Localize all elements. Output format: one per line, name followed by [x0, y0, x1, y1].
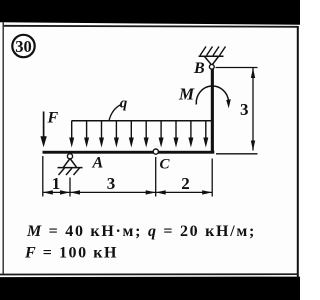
problem number circle 30 [12, 35, 34, 57]
frame bottom line [0, 273, 298, 275]
frame top line [3, 26, 298, 27]
svg-text:M = 40 кН·м; q = 20 кН/м;: M = 40 кН·м; q = 20 кН/м; [26, 223, 256, 240]
support B: ground line [199, 55, 224, 57]
svg-text:B: B [193, 60, 205, 77]
beam [43, 151, 215, 154]
svg-text:3: 3 [107, 174, 116, 193]
svg-text:1: 1 [52, 174, 61, 193]
dim 3: vertical line [252, 68, 254, 151]
moment M arrowhead [226, 99, 231, 108]
support B: triangle link [205, 57, 219, 65]
pin support A: hatching [59, 168, 80, 175]
pin support A: circle [67, 154, 72, 159]
svg-text:q: q [120, 96, 128, 112]
support B: hatching [200, 47, 226, 56]
svg-text:2: 2 [181, 174, 190, 193]
column (vertical member B to beam) [211, 69, 214, 153]
svg-text:A: A [92, 155, 104, 172]
bottom dims: extension line at A [69, 178, 71, 197]
pin support A: triangle [63, 159, 76, 168]
bottom dims: dimension line [43, 191, 212, 193]
distributed load arrows [69, 121, 208, 148]
svg-text:F: F [47, 110, 59, 127]
dim 3: bottom arrowhead [251, 141, 255, 151]
pin B circle [209, 64, 214, 69]
dim 3: top arrowhead [251, 68, 255, 78]
distributed load q top line [72, 120, 213, 122]
bottom dims: extension line at C [155, 157, 157, 197]
svg-text:30: 30 [15, 37, 32, 56]
bottom dims: extension line left end [42, 156, 44, 197]
pin support A: ground line [58, 167, 83, 169]
svg-text:M: M [178, 85, 195, 104]
q label leader [109, 105, 121, 121]
bottom dims: extension line right end [211, 159, 213, 197]
svg-text:3: 3 [240, 100, 249, 119]
bottom dims: arrowheads [43, 190, 212, 194]
frame left line [2, 22, 4, 275]
dim 3 (vertical): top extension line [216, 67, 258, 69]
frame right line [297, 26, 299, 278]
svg-text:C: C [160, 157, 171, 173]
force F arrow [40, 112, 46, 148]
node C circle [153, 149, 158, 154]
top scan margin bar [0, 0, 300, 25]
bottom scan margin bar [0, 277, 300, 300]
moment M arc [196, 86, 228, 105]
dim 3: bottom extension line [216, 153, 258, 155]
svg-text:F = 100 кН: F = 100 кН [24, 245, 118, 262]
